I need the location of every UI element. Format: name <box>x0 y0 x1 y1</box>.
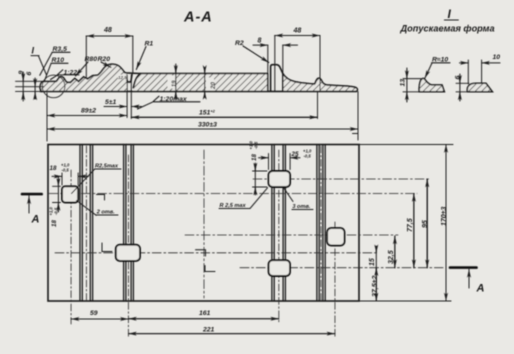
svg-text:R20: R20 <box>98 56 111 63</box>
svg-text:А: А <box>31 214 40 226</box>
svg-text:13: 13 <box>400 79 407 87</box>
step mark centre lower <box>205 266 215 272</box>
svg-text:18: 18 <box>51 220 58 227</box>
detail shape left (hatched) <box>419 78 444 91</box>
svg-text:95: 95 <box>422 220 429 228</box>
svg-text:77,5: 77,5 <box>407 218 414 232</box>
dimension 8 (lug width) <box>268 45 283 72</box>
svg-text:37,5±2: 37,5±2 <box>372 276 379 297</box>
dim 59 bottom <box>71 318 128 320</box>
row centerline hole2 <box>55 252 379 254</box>
step mark left of hole2 <box>102 243 112 252</box>
svg-text:8: 8 <box>258 38 262 45</box>
svg-text:161: 161 <box>199 310 211 317</box>
dim 161 bottom <box>128 318 278 320</box>
rib group 4 centerline <box>320 146 322 300</box>
hole3 height dim 18 <box>253 171 268 187</box>
svg-text:151+2: 151+2 <box>199 109 216 117</box>
step mark right of hole1 <box>97 195 105 201</box>
svg-text:-0,5: -0,5 <box>304 154 312 159</box>
hatched body middle plateau <box>133 74 268 92</box>
thickness dim 19 <box>175 64 177 100</box>
hole 2 <box>116 245 140 261</box>
section arrow A left <box>22 193 42 196</box>
svg-text:19: 19 <box>171 80 178 87</box>
dim 37,5±2 right <box>375 268 377 301</box>
svg-text:12,5: 12,5 <box>118 75 127 80</box>
plan outline rectangle <box>48 145 359 302</box>
dimension 330±3 <box>353 92 359 141</box>
svg-text:48: 48 <box>293 28 302 35</box>
hole1 width dim 18 <box>62 173 78 185</box>
dim 221 bottom <box>128 333 335 335</box>
dim 170±3 right <box>445 145 447 302</box>
hole 5 centerline vertical <box>334 222 336 338</box>
svg-text:-0,5: -0,5 <box>62 168 70 173</box>
tiny label 12,5 <box>118 75 128 80</box>
dim 95 right <box>426 179 428 268</box>
svg-text:6: 6 <box>26 72 33 76</box>
dimension 10 (right detail) <box>468 60 481 84</box>
detail callout circle I <box>42 75 65 98</box>
dimension 6 (vertical, left) <box>34 78 36 99</box>
svg-text:25: 25 <box>291 151 299 158</box>
dimension 151+2 <box>317 92 319 119</box>
svg-text:32,5: 32,5 <box>388 250 395 264</box>
svg-text:48: 48 <box>103 27 112 34</box>
section bottom edge <box>40 90 356 92</box>
hatched body right tapered part <box>283 74 358 92</box>
svg-text:18: 18 <box>251 154 258 161</box>
rib group 1 centerline <box>85 146 87 300</box>
vertical axis centerline <box>203 150 205 298</box>
dimension 48 right <box>275 36 320 92</box>
dimension 5±1 <box>127 75 131 119</box>
row centerline hole5 <box>185 234 398 236</box>
bottom edge extension right <box>359 300 451 302</box>
hole 3 <box>269 171 291 187</box>
lug outline over bolt slot <box>271 65 283 92</box>
svg-text:-0,5: -0,5 <box>254 141 259 149</box>
right part top profile <box>283 74 358 91</box>
svg-text:89±2: 89±2 <box>81 108 96 115</box>
left extension lines <box>16 81 45 91</box>
hole 1 <box>62 186 78 202</box>
rib group 1 lines <box>80 145 93 302</box>
hole 3-4 centerline vertical <box>278 150 280 323</box>
svg-text:9: 9 <box>18 71 25 75</box>
svg-text:5±1: 5±1 <box>105 99 117 106</box>
svg-text:А-А: А-А <box>183 10 213 26</box>
section top profile outline <box>40 64 268 91</box>
svg-text:170±3: 170±3 <box>441 206 448 226</box>
hole 1 centerline vertical <box>70 170 72 324</box>
thickness dim 20 <box>204 68 206 97</box>
svg-text:Допускаемая форма: Допускаемая форма <box>400 24 495 34</box>
dimension 13 (left detail) <box>403 79 421 92</box>
svg-text:59: 59 <box>90 310 98 317</box>
hatched body left part of section <box>40 64 126 91</box>
svg-text:330±3: 330±3 <box>198 122 217 129</box>
dimension 89±2 <box>46 93 48 141</box>
rib group 3 lines <box>272 145 286 302</box>
hole 2 centerline vertical <box>127 155 129 338</box>
svg-text:-0,5: -0,5 <box>54 207 59 215</box>
svg-text:15: 15 <box>369 258 376 266</box>
svg-text:20: 20 <box>210 82 217 90</box>
svg-text:221: 221 <box>202 327 215 334</box>
dim 15 right <box>375 249 377 271</box>
dim 77,5 right <box>413 194 415 268</box>
hole1 height dim 18 <box>53 186 61 202</box>
right slot wall <box>282 74 284 92</box>
rib group 2 lines <box>124 145 134 302</box>
svg-text:10: 10 <box>493 54 501 61</box>
row centerline hole1 <box>49 193 417 195</box>
svg-text:А: А <box>476 283 485 295</box>
svg-text:6: 6 <box>455 76 462 80</box>
section arrow A right <box>450 266 477 269</box>
hole 5 <box>327 228 344 245</box>
hole 4 <box>269 260 290 276</box>
top edge extension right <box>359 144 453 146</box>
svg-text:I: I <box>32 46 35 56</box>
svg-text:I: I <box>448 7 452 21</box>
detail shape right (hatched) <box>467 83 492 92</box>
plateau right wall at slot <box>267 74 269 92</box>
hole3 width dim 25 <box>269 154 291 170</box>
dimension 9 (vertical, left) <box>22 72 24 101</box>
dimension 6 (right detail) <box>456 83 469 92</box>
svg-text:18: 18 <box>50 165 57 172</box>
row centerline hole4 <box>240 267 443 269</box>
row centerline hole3 <box>253 178 431 180</box>
rib group 4 lines <box>317 145 325 302</box>
step mark centre upper <box>196 250 206 256</box>
dim 32,5 right <box>394 236 396 268</box>
dimension 48 left <box>86 36 133 77</box>
